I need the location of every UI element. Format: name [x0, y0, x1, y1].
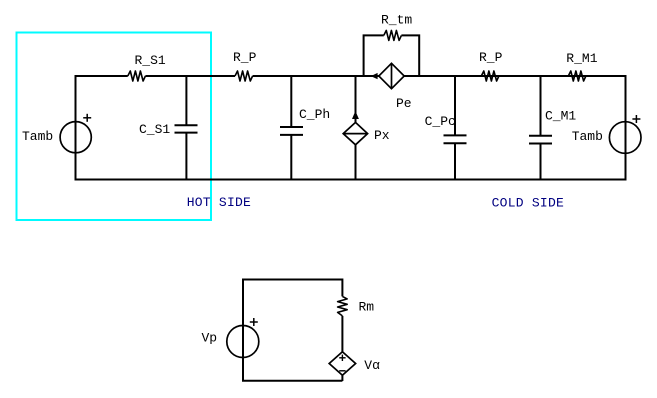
wire: bottom rail of thermal circuit [75, 179, 627, 181]
voltage source Tamb (left), circle [60, 122, 91, 153]
label C_Ph [299, 107, 330, 122]
dependent source Valpha (diamond) [329, 352, 355, 375]
label Tamb (left) [22, 129, 53, 144]
capacitor C_Pc branch, lower wire [454, 143, 456, 179]
capacitor C_Ph plates [280, 127, 303, 135]
svg-text:C_M1: C_M1 [545, 109, 576, 124]
label C_M1 [545, 109, 576, 124]
plus sign of Vp [250, 318, 258, 326]
plus sign inside Valpha [339, 355, 345, 361]
wire: R_tm loop left vertical [364, 35, 384, 76]
label C_Pc [425, 114, 456, 129]
svg-text:C_S1: C_S1 [139, 122, 170, 137]
capacitor C_Ph branch, upper wire [290, 75, 292, 127]
wire: left vertical branch (Tamb L) [75, 76, 77, 180]
resistor R_P (cold side) [481, 71, 499, 81]
resistor R_M1 [568, 71, 586, 81]
capacitor C_Ph branch, lower wire [290, 135, 292, 180]
plus sign of Tamb (left) [83, 114, 91, 122]
label COLD SIDE [492, 196, 564, 211]
label HOT SIDE [187, 195, 251, 210]
label R_S1 [135, 53, 166, 68]
capacitor C_S1 branch, upper wire [185, 75, 187, 125]
svg-text:R_P: R_P [479, 50, 503, 65]
plus sign of Tamb (right) [632, 115, 640, 123]
svg-text:Px: Px [374, 128, 390, 143]
svg-text:Rm: Rm [359, 300, 375, 315]
wire: top rail, Tamb L to R_S1 [75, 75, 128, 77]
capacitor C_S1 plates [175, 125, 198, 132]
svg-text:R_P: R_P [233, 50, 257, 65]
wire: bottom circuit left branch (Vp) [242, 279, 244, 381]
dependent source Pe (diamond) [379, 63, 404, 88]
dependent source Px (diamond) [343, 122, 367, 144]
voltage source Tamb (right), circle [609, 122, 641, 154]
wire: right branch between Rm and Valpha [341, 316, 343, 352]
wire: right vertical branch (Tamb R) [625, 75, 627, 180]
resistor Rm (vertical) [338, 296, 348, 316]
wire: right branch above Rm [341, 279, 343, 297]
label R_M1 [566, 51, 597, 66]
wire: R_tm loop right vertical [401, 35, 419, 76]
arrow of Px (pointing up) [352, 111, 359, 119]
svg-text:R_S1: R_S1 [135, 53, 166, 68]
minus sign inside Valpha [339, 370, 345, 372]
label Tamb (right) [572, 129, 603, 144]
capacitor C_M1 branch, lower wire [540, 144, 542, 180]
svg-text:Tamb: Tamb [22, 129, 53, 144]
svg-text:COLD SIDE: COLD SIDE [492, 196, 564, 211]
capacitor C_Pc branch, upper wire [454, 75, 456, 135]
wire: bottom circuit bottom rail [242, 380, 342, 382]
svg-text:Vα: Vα [364, 358, 380, 373]
wire: top rail, Pe right vertex to top-right corner [404, 75, 625, 77]
svg-text:Vp: Vp [202, 330, 218, 345]
label R_P (cold side) [479, 50, 503, 65]
svg-text:R_M1: R_M1 [566, 51, 597, 66]
svg-text:Pe: Pe [396, 96, 412, 111]
label Pe [396, 96, 412, 111]
label Valpha [364, 358, 380, 373]
wire: stub below Valpha [341, 375, 343, 381]
svg-text:R_tm: R_tm [381, 12, 412, 27]
resistor R_tm [384, 30, 402, 40]
arrow of Pe (pointing left, on wire at left vertex) [371, 73, 378, 79]
label Vp [202, 330, 218, 345]
label R_tm [381, 12, 412, 27]
label Px [374, 128, 390, 143]
wire: Px branch lower [355, 145, 357, 180]
svg-text:Tamb: Tamb [572, 129, 603, 144]
wire: bottom circuit top rail [243, 279, 342, 281]
resistor R_P (hot side) [235, 71, 253, 81]
wire: top rail, R_P to Pe left vertex [253, 75, 379, 77]
label R_P (hot side) [233, 50, 257, 65]
capacitor C_S1 branch, lower wire [185, 133, 187, 180]
resistor R_S1 [128, 71, 146, 81]
wire: Px branch upper (top rail down to arrow) [355, 75, 357, 122]
capacitor C_M1 branch, upper wire [540, 75, 542, 136]
svg-text:C_Pc: C_Pc [425, 114, 456, 129]
capacitor C_M1 plates [529, 136, 552, 144]
wire: top rail, R_S1 to R_P [145, 75, 235, 77]
label Rm [359, 300, 375, 315]
label C_S1 [139, 122, 170, 137]
svg-text:C_Ph: C_Ph [299, 107, 330, 122]
highlight box (cyan selection rectangle around hot-side subcircuit) [17, 33, 212, 221]
svg-text:HOT SIDE: HOT SIDE [187, 195, 251, 210]
capacitor C_Pc plates [444, 135, 467, 143]
voltage source Vp, circle [227, 326, 259, 358]
